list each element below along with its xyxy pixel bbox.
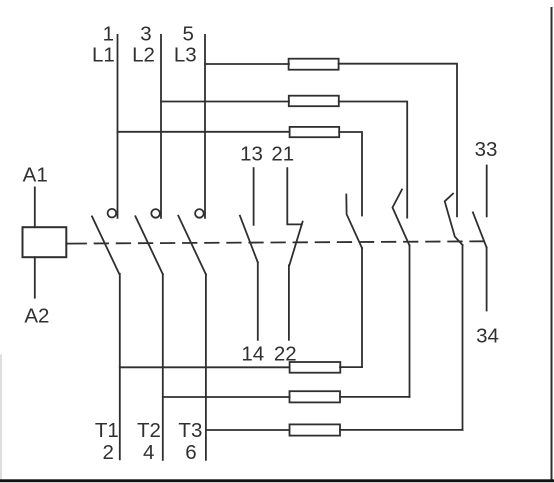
dashed actuator link line — [86, 241, 487, 243]
wire terminal 22 — [288, 265, 290, 339]
wire terminal 33 — [486, 166, 488, 217]
resistor R1 — [289, 59, 339, 70]
frame bottom bar — [0, 479, 554, 482]
wire pole 2 bottom conductor T2 — [162, 274, 164, 460]
wire contact 6 bottom to R4 junction — [361, 248, 363, 367]
wire terminal 34 — [486, 248, 488, 311]
pole 1 fixed contact circle — [108, 209, 117, 218]
frame right border — [551, 8, 553, 480]
wire L3 top terminal — [204, 35, 206, 218]
svg-text:2: 2 — [102, 441, 113, 464]
frame left faint border — [0, 355, 2, 479]
svg-text:4: 4 — [143, 441, 154, 464]
wire L3 to resistor R1 — [205, 63, 289, 65]
pole 3 fixed contact circle — [195, 209, 204, 218]
contact 8 moving blade (R1 circuit) — [445, 194, 463, 245]
svg-text:14: 14 — [241, 342, 264, 365]
svg-text:A1: A1 — [23, 164, 48, 187]
wire pole 3 bottom conductor T3 — [205, 274, 207, 460]
wire L1 top terminal — [117, 35, 119, 218]
svg-text:T2: T2 — [137, 419, 161, 442]
wire R3 to contact 6 top terminal — [339, 132, 362, 216]
wire R6 right lead — [340, 429, 463, 431]
pole 2 fixed contact circle — [151, 209, 160, 218]
svg-text:6: 6 — [185, 441, 196, 464]
svg-text:T3: T3 — [178, 419, 202, 442]
wire terminal 13 — [253, 168, 255, 225]
coil K1 — [23, 227, 67, 257]
wire pole 2 conductor to R5 left lead — [163, 396, 290, 398]
aux NC contact 21-22 blade — [289, 222, 302, 266]
resistor R4 — [290, 362, 341, 373]
pole 1 moving blade — [92, 216, 119, 273]
wire contact 8 bottom to R6 junction — [462, 245, 464, 430]
svg-text:L3: L3 — [174, 43, 197, 66]
svg-text:5: 5 — [182, 23, 193, 46]
wire A2 lead — [34, 257, 36, 298]
wire terminal 21 with foot — [287, 168, 302, 224]
pole 2 moving blade — [135, 216, 162, 274]
svg-text:T1: T1 — [95, 419, 119, 442]
aux NO contact 13-14 blade — [240, 216, 258, 263]
wire pole 1 conductor to R4 left lead — [120, 366, 290, 368]
wire R1 to contact stack (top run and right drop) — [339, 64, 457, 217]
contact 7 moving blade (R2 circuit) — [393, 190, 410, 246]
svg-text:1: 1 — [103, 23, 114, 46]
resistor R6 — [290, 424, 341, 435]
svg-text:L2: L2 — [132, 43, 155, 66]
svg-text:21: 21 — [271, 143, 294, 166]
wire contact 7 bottom to R5 junction — [409, 246, 411, 397]
wire coil to dashed actuator link (solid stub) — [66, 243, 86, 245]
aux NO contact 33-34 blade — [473, 212, 487, 247]
resistor R3 — [290, 127, 340, 137]
wire pole 1 bottom conductor T1 — [119, 274, 121, 460]
wire A1 lead — [34, 187, 36, 227]
svg-text:3: 3 — [140, 23, 151, 46]
wire pole 3 conductor to R6 left lead — [206, 429, 290, 431]
wire L1 to resistor R3 — [118, 131, 290, 133]
svg-text:13: 13 — [240, 143, 263, 166]
svg-text:33: 33 — [475, 138, 498, 161]
wire R2 to contact stack (right drop) — [339, 102, 407, 218]
pole 3 moving blade — [178, 216, 206, 275]
resistor R5 — [290, 391, 341, 402]
wire R4 right lead — [340, 366, 362, 368]
wire L2 to resistor R2 — [161, 101, 289, 103]
wire R5 right lead — [340, 396, 410, 398]
contact 6 moving blade (R3 circuit) — [346, 195, 362, 249]
svg-text:34: 34 — [476, 325, 499, 348]
svg-text:A2: A2 — [24, 304, 49, 327]
wire L2 top terminal — [160, 35, 162, 218]
resistor R2 — [289, 96, 339, 107]
wire terminal 14 — [257, 262, 259, 339]
svg-text:L1: L1 — [92, 43, 115, 66]
